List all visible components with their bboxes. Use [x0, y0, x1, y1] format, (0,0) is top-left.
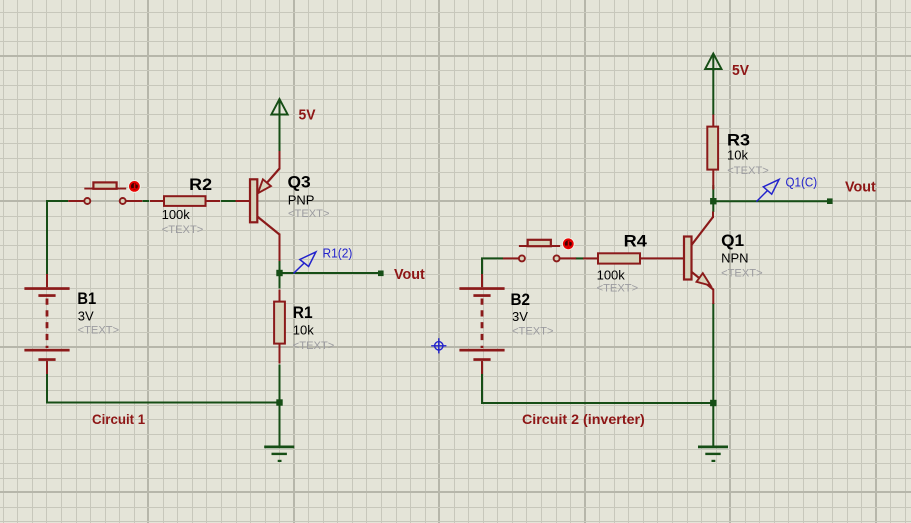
svg-text:R4: R4	[624, 232, 648, 251]
svg-text:<TEXT>: <TEXT>	[288, 208, 330, 220]
svg-text:B2: B2	[511, 290, 531, 309]
svg-text:<TEXT>: <TEXT>	[293, 340, 335, 352]
svg-text:3V: 3V	[78, 308, 94, 323]
svg-text:R1: R1	[293, 303, 313, 322]
svg-text:Circuit 2 (inverter): Circuit 2 (inverter)	[522, 411, 645, 427]
svg-text:<TEXT>: <TEXT>	[78, 325, 120, 337]
svg-text:5V: 5V	[299, 107, 316, 124]
svg-text:Q1(C): Q1(C)	[786, 175, 818, 189]
svg-text:R2: R2	[189, 175, 212, 194]
svg-text:R1(2): R1(2)	[323, 247, 353, 261]
svg-text:10k: 10k	[293, 323, 314, 338]
svg-text:Vout: Vout	[394, 266, 425, 283]
svg-text:<TEXT>: <TEXT>	[721, 268, 763, 280]
svg-text:B1: B1	[77, 289, 96, 308]
svg-text:100k: 100k	[162, 207, 191, 222]
svg-text:Vout: Vout	[845, 179, 876, 196]
svg-text:<TEXT>: <TEXT>	[597, 283, 639, 295]
svg-text:5V: 5V	[732, 62, 749, 79]
svg-text:<TEXT>: <TEXT>	[727, 165, 769, 177]
svg-text:Q1: Q1	[721, 231, 744, 250]
svg-text:PNP: PNP	[288, 193, 315, 208]
svg-text:3V: 3V	[512, 309, 528, 324]
svg-text:<TEXT>: <TEXT>	[512, 326, 554, 338]
svg-text:NPN: NPN	[721, 251, 748, 266]
svg-text:10k: 10k	[727, 147, 748, 162]
svg-text:100k: 100k	[597, 267, 626, 282]
svg-text:Circuit 1: Circuit 1	[92, 411, 145, 427]
svg-text:<TEXT>: <TEXT>	[162, 224, 204, 236]
svg-text:Q3: Q3	[288, 173, 311, 192]
